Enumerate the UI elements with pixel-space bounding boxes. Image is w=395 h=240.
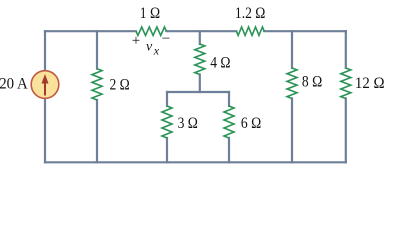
svg-text:v: v — [146, 40, 153, 55]
svg-text:−: − — [162, 31, 170, 47]
svg-text:1.2 Ω: 1.2 Ω — [235, 5, 265, 22]
svg-text:20 A: 20 A — [0, 75, 29, 93]
svg-text:x: x — [153, 44, 160, 58]
svg-text:+: + — [132, 33, 140, 49]
svg-text:8 Ω: 8 Ω — [302, 74, 322, 91]
svg-text:1 Ω: 1 Ω — [140, 5, 160, 22]
svg-text:2 Ω: 2 Ω — [110, 76, 130, 93]
svg-text:12 Ω: 12 Ω — [355, 75, 385, 93]
svg-text:4 Ω: 4 Ω — [210, 54, 230, 71]
svg-text:3 Ω: 3 Ω — [178, 115, 198, 132]
svg-text:6 Ω: 6 Ω — [241, 115, 261, 132]
